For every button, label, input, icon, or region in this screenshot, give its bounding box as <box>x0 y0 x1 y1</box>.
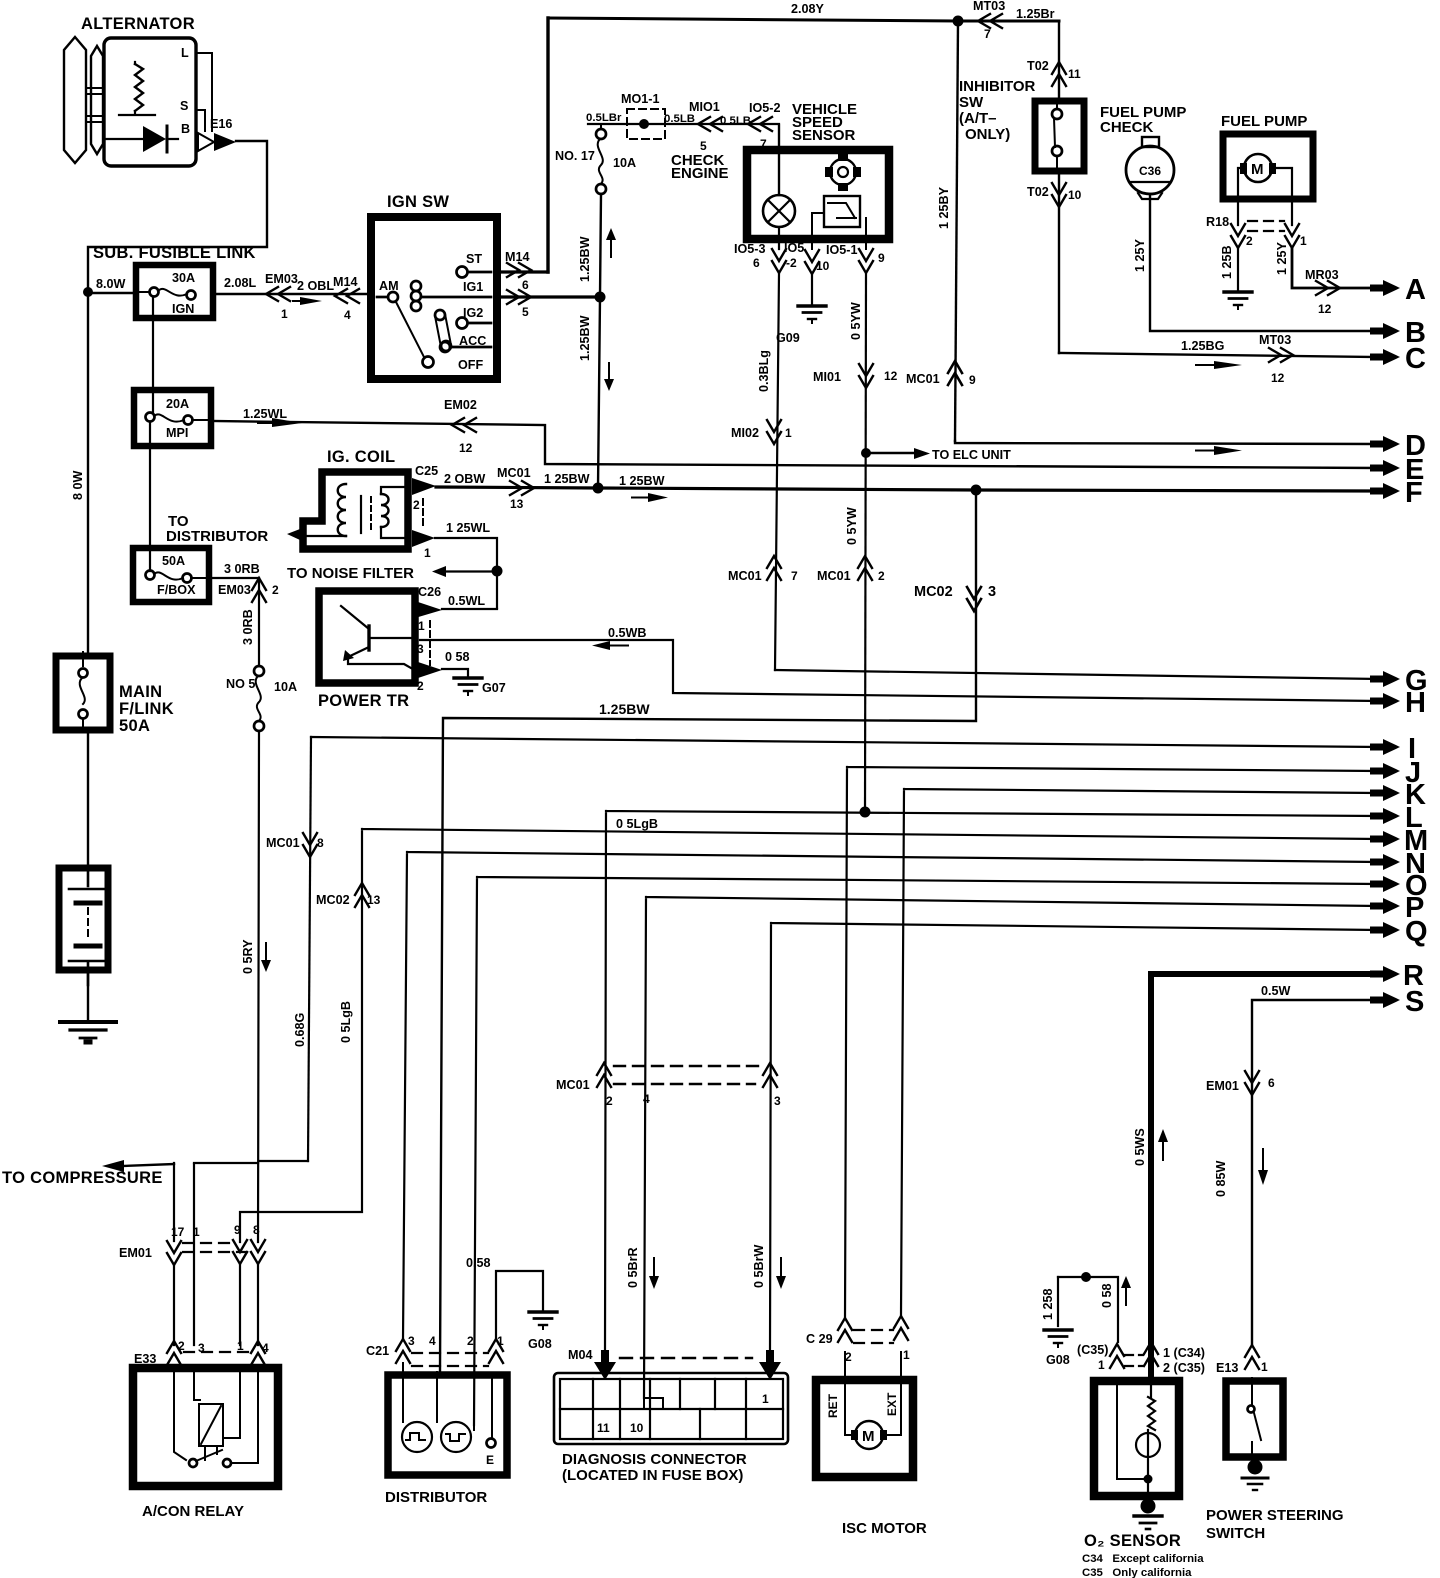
svg-text:0.58: 0.58 <box>466 1256 491 1270</box>
svg-text:MC02: MC02 <box>316 893 350 907</box>
node I terminal <box>1370 733 1416 765</box>
svg-text:0 58: 0 58 <box>445 650 470 664</box>
svg-text:1 25BY: 1 25BY <box>937 186 951 229</box>
connector MO1-1 dashed box <box>621 92 665 139</box>
svg-text:2 (C35): 2 (C35) <box>1163 1361 1205 1375</box>
svg-text:2: 2 <box>417 679 424 693</box>
svg-text:OFF: OFF <box>458 358 483 372</box>
svg-text:M14: M14 <box>333 275 358 289</box>
svg-text:A/CON RELAY: A/CON RELAY <box>142 1503 244 1520</box>
svg-text:12: 12 <box>459 441 473 455</box>
label TO DISTRIBUTOR <box>166 513 300 545</box>
svg-text:IG1: IG1 <box>463 280 483 294</box>
connector R18 <box>1206 215 1307 248</box>
svg-text:DIAGNOSIS CONNECTOR: DIAGNOSIS CONNECTOR <box>562 1451 747 1468</box>
svg-text:S: S <box>1405 986 1424 1018</box>
wire 1.25BW vertical to F junction <box>578 194 616 488</box>
svg-text:C21: C21 <box>366 1344 389 1358</box>
svg-text:2 OBW: 2 OBW <box>444 472 485 486</box>
svg-text:7: 7 <box>791 569 798 583</box>
svg-text:IO5-3: IO5-3 <box>734 242 766 256</box>
node K terminal <box>1370 779 1426 811</box>
svg-text:12: 12 <box>1271 371 1285 385</box>
svg-text:EM03: EM03 <box>218 583 251 597</box>
wire N line to distributor 3 <box>403 852 1378 1339</box>
svg-text:9: 9 <box>234 1223 241 1237</box>
svg-text:C26: C26 <box>418 585 441 599</box>
fuse 50A F/BOX <box>133 548 209 602</box>
svg-text:1.25Br: 1.25Br <box>1016 7 1055 21</box>
svg-text:13: 13 <box>367 893 381 907</box>
svg-text:2: 2 <box>413 498 420 512</box>
connector M04 into diagnosis connector <box>568 1348 781 1380</box>
svg-text:MPI: MPI <box>166 426 188 440</box>
svg-text:MT03: MT03 <box>973 0 1005 13</box>
svg-text:10A: 10A <box>613 156 636 170</box>
svg-text:4: 4 <box>429 1334 436 1348</box>
wire 0.5WB to H <box>420 626 1378 701</box>
svg-text:(C35): (C35) <box>1077 1343 1109 1357</box>
svg-text:1: 1 <box>281 307 288 321</box>
svg-text:6: 6 <box>1268 1076 1275 1090</box>
svg-text:TO ELC UNIT: TO ELC UNIT <box>932 448 1011 462</box>
svg-text:RET: RET <box>826 1393 840 1418</box>
node B terminal <box>1370 317 1426 349</box>
svg-text:2: 2 <box>272 583 279 597</box>
svg-text:1: 1 <box>903 1348 910 1362</box>
svg-text:11: 11 <box>1068 67 1081 81</box>
svg-text:0 5YW: 0 5YW <box>849 302 863 340</box>
svg-text:G08: G08 <box>528 1337 552 1351</box>
svg-text:1: 1 <box>424 546 431 560</box>
wire IG1 with connector M14-5 <box>497 290 600 319</box>
wire 2.0BW / F line with MC01-13 <box>436 466 1378 511</box>
svg-text:C35 Only california: C35 Only california <box>1082 1567 1192 1578</box>
wire 0.5RY <box>241 731 271 1242</box>
wire O line to distributor 2 <box>474 877 1378 1425</box>
svg-text:MC01: MC01 <box>497 466 531 480</box>
svg-text:20A: 20A <box>166 397 189 411</box>
node F terminal <box>1370 477 1423 509</box>
wire 1.25BY / MC01-9 to D <box>906 21 976 441</box>
ground G09 <box>776 274 826 345</box>
svg-text:IG. COIL: IG. COIL <box>327 448 395 466</box>
main fusible link 50A <box>56 652 174 735</box>
node F junction right <box>971 485 982 496</box>
svg-text:1 (C34): 1 (C34) <box>1163 1346 1205 1360</box>
svg-text:INHIBITOR: INHIBITOR <box>959 78 1036 95</box>
svg-text:POWER STEERING: POWER STEERING <box>1206 1507 1344 1524</box>
svg-text:3: 3 <box>988 584 996 600</box>
wire D line from MC01-9 <box>955 441 1378 444</box>
wire 0.5LB to vehicle speed sensor <box>586 100 781 195</box>
svg-text:2.08L: 2.08L <box>224 276 257 290</box>
node G terminal <box>1370 665 1428 697</box>
svg-text:10: 10 <box>1068 188 1082 202</box>
svg-text:FUEL PUMP: FUEL PUMP <box>1221 113 1307 130</box>
node C terminal <box>1370 343 1426 375</box>
speed sensor rotor <box>825 153 861 191</box>
connector C34/C35 pins <box>1077 1342 1205 1375</box>
connector MC01 2/4/3 dashed <box>556 1063 781 1108</box>
svg-text:0 5LB: 0 5LB <box>720 115 751 127</box>
wire 0.5WL <box>442 594 497 609</box>
label TO ELC UNIT <box>861 448 1011 462</box>
power transistor POWER TR <box>318 591 415 710</box>
svg-text:MC01: MC01 <box>556 1078 590 1092</box>
wire 1.25Y to A with connector MR03-12 <box>1275 241 1378 316</box>
svg-text:B: B <box>181 122 190 136</box>
svg-text:A: A <box>1405 274 1426 306</box>
svg-text:6: 6 <box>522 278 529 292</box>
svg-text:50A: 50A <box>162 554 185 568</box>
svg-text:O₂ SENSOR: O₂ SENSOR <box>1084 1532 1181 1550</box>
svg-text:1: 1 <box>497 1334 504 1348</box>
svg-text:4: 4 <box>643 1092 650 1106</box>
alternator G1 <box>64 15 212 166</box>
svg-text:G09: G09 <box>776 331 800 345</box>
svg-text:DISTRIBUTOR: DISTRIBUTOR <box>166 528 268 545</box>
svg-text:IO5-2: IO5-2 <box>749 101 781 115</box>
svg-text:0.3BLg: 0.3BLg <box>757 350 771 392</box>
wire 2.0BY top bus <box>548 2 1059 21</box>
svg-text:EM01: EM01 <box>1206 1079 1239 1093</box>
svg-text:1: 1 <box>237 1339 244 1353</box>
svg-text:1.25BG: 1.25BG <box>1181 339 1225 353</box>
svg-text:ISC MOTOR: ISC MOTOR <box>842 1520 927 1537</box>
svg-text:0 5BrR: 0 5BrR <box>626 1247 640 1288</box>
distributor <box>385 1363 507 1506</box>
svg-text:0 5WS: 0 5WS <box>1133 1128 1147 1166</box>
wire P line 0.5BrR <box>626 897 1378 1398</box>
wire J line from ISC RET <box>845 767 1378 1318</box>
svg-text:6: 6 <box>753 256 760 270</box>
svg-text:M: M <box>862 1428 875 1445</box>
svg-text:ALTERNATOR: ALTERNATOR <box>81 15 195 33</box>
ignition coil IG. COIL <box>301 448 408 549</box>
svg-text:DISTRIBUTOR: DISTRIBUTOR <box>385 1489 487 1506</box>
svg-text:IO5: IO5 <box>784 241 804 255</box>
connector E16 <box>198 117 236 151</box>
svg-text:C 29: C 29 <box>806 1332 833 1346</box>
svg-text:G07: G07 <box>482 681 506 695</box>
svg-text:-2: -2 <box>786 256 797 270</box>
svg-text:SUB. FUSIBLE LINK: SUB. FUSIBLE LINK <box>93 244 256 262</box>
svg-text:3 0RB: 3 0RB <box>224 562 260 576</box>
wire 1.25BW bus to distributor 4 <box>440 490 996 1372</box>
node E terminal <box>1370 454 1424 486</box>
svg-text:T02: T02 <box>1027 185 1049 199</box>
svg-text:1.25BW: 1.25BW <box>599 701 650 717</box>
svg-text:MT03: MT03 <box>1259 333 1291 347</box>
ISC motor <box>816 1352 927 1537</box>
connector E13 <box>1216 1345 1268 1375</box>
svg-text:0 5LgB: 0 5LgB <box>339 1001 353 1043</box>
node A terminal <box>1370 274 1426 306</box>
A/CON relay <box>133 1368 278 1520</box>
svg-text:1.25WL: 1.25WL <box>243 407 287 421</box>
connector C25 pins <box>412 464 438 560</box>
fuse NO.5 10A <box>226 666 297 731</box>
wire 0.3BLg <box>728 273 798 670</box>
node L terminal <box>1370 802 1423 834</box>
pin IO5 -2 10 <box>784 241 830 274</box>
svg-text:0 58: 0 58 <box>1100 1283 1114 1308</box>
svg-text:1 25Y: 1 25Y <box>1133 238 1147 272</box>
svg-text:EXT: EXT <box>885 1392 899 1416</box>
fuel pump <box>1221 113 1313 225</box>
svg-text:0.68G: 0.68G <box>293 1012 307 1047</box>
svg-text:50A: 50A <box>119 717 150 735</box>
svg-text:0.5WL: 0.5WL <box>448 594 485 608</box>
connector EM01 17/1/9/8 <box>119 1223 265 1265</box>
svg-text:5: 5 <box>700 139 707 153</box>
node M terminal <box>1370 825 1428 857</box>
svg-text:4: 4 <box>262 1341 269 1355</box>
svg-text:G08: G08 <box>1046 1353 1070 1367</box>
svg-text:MAIN: MAIN <box>119 683 162 701</box>
power steering switch <box>1206 1378 1344 1542</box>
wire R line 0.5WS <box>1133 974 1378 1378</box>
svg-text:MI02: MI02 <box>731 426 759 440</box>
svg-text:MC01: MC01 <box>906 372 940 386</box>
lamp check engine <box>763 125 795 249</box>
pin IO5-3 6 <box>734 242 786 273</box>
node 1.25BY junction <box>953 16 964 27</box>
wire L line 0.5LgB <box>605 807 1378 1350</box>
svg-text:AM: AM <box>379 279 399 293</box>
svg-text:0 5RY: 0 5RY <box>241 939 255 974</box>
svg-text:2 OBL: 2 OBL <box>297 279 334 293</box>
svg-text:(A/T–: (A/T– <box>959 110 997 127</box>
ignition switch IGN SW <box>371 193 497 379</box>
svg-text:0.5W: 0.5W <box>1261 984 1291 998</box>
svg-text:7: 7 <box>984 27 991 41</box>
wire M line <box>240 829 1378 1242</box>
diagnosis connector <box>554 1373 788 1484</box>
svg-text:IGN: IGN <box>172 302 194 316</box>
svg-text:0 5LgB: 0 5LgB <box>616 817 658 831</box>
svg-text:2: 2 <box>606 1094 613 1108</box>
svg-text:E13: E13 <box>1216 1361 1238 1375</box>
svg-text:1: 1 <box>1300 234 1307 248</box>
wire Q line 0.5BrW <box>752 923 1378 1349</box>
svg-text:1: 1 <box>1261 1360 1268 1374</box>
svg-text:1: 1 <box>193 1225 200 1239</box>
svg-text:17: 17 <box>171 1225 185 1239</box>
svg-text:POWER TR: POWER TR <box>318 692 409 710</box>
svg-text:F/BOX: F/BOX <box>157 583 196 597</box>
wire ST with connector M14-6 and 2.0BY riser <box>497 18 548 292</box>
svg-text:Q: Q <box>1405 916 1428 948</box>
svg-text:SW: SW <box>959 94 984 111</box>
svg-text:ENGINE: ENGINE <box>671 165 729 182</box>
svg-text:M04: M04 <box>568 1348 593 1362</box>
svg-text:H: H <box>1405 687 1426 719</box>
svg-text:8.0W: 8.0W <box>96 277 126 291</box>
wire 1.25BG to C with connector MT03-12 <box>1059 333 1378 385</box>
svg-text:NO 5: NO 5 <box>226 677 255 691</box>
node R terminal <box>1370 960 1424 992</box>
svg-text:1 25BW: 1 25BW <box>544 472 590 486</box>
svg-text:IO5-1: IO5-1 <box>826 243 858 257</box>
svg-text:0 5YW: 0 5YW <box>845 507 859 545</box>
svg-text:1 25BW: 1 25BW <box>619 474 665 488</box>
label TO NOISE FILTER <box>287 565 497 582</box>
connector C26 pins <box>415 585 442 693</box>
reed switch <box>812 196 866 249</box>
svg-text:C34 Except california: C34 Except california <box>1082 1553 1204 1565</box>
svg-text:IGN SW: IGN SW <box>387 193 449 211</box>
node P terminal <box>1370 892 1424 924</box>
wire 1.25WL C25-1 to noise filter node <box>435 521 497 608</box>
svg-text:TO COMPRESSURE: TO COMPRESSURE <box>2 1169 163 1187</box>
O2 sensor <box>1082 1378 1204 1578</box>
svg-text:0 5BrW: 0 5BrW <box>752 1244 766 1288</box>
svg-text:MIO1: MIO1 <box>689 100 720 114</box>
svg-text:M: M <box>1251 161 1264 178</box>
node junction IG1/1.25BW <box>595 292 606 303</box>
svg-text:2: 2 <box>1246 234 1253 248</box>
svg-text:MC02: MC02 <box>914 584 953 600</box>
svg-text:F: F <box>1405 477 1423 509</box>
svg-text:1.25BW: 1.25BW <box>578 315 592 361</box>
svg-text:10: 10 <box>630 1421 644 1435</box>
wire 0.5B to ground G07 <box>442 650 506 695</box>
svg-text:0.5LB: 0.5LB <box>664 113 695 125</box>
svg-text:2: 2 <box>467 1334 474 1348</box>
connector E33 <box>134 1339 269 1366</box>
svg-text:ST: ST <box>466 252 482 266</box>
node H terminal <box>1370 687 1426 719</box>
svg-text:1 25Y: 1 25Y <box>1275 241 1289 275</box>
wire 1.25B to ground G08 right <box>1041 1277 1072 1367</box>
wire S line 0.5W <box>1206 984 1378 1345</box>
svg-text:0.5LBr: 0.5LBr <box>586 112 622 124</box>
inhibitor switch <box>959 21 1084 353</box>
svg-text:1 258: 1 258 <box>1041 1288 1055 1320</box>
node D terminal <box>1370 430 1426 462</box>
svg-text:TO NOISE FILTER: TO NOISE FILTER <box>287 565 414 582</box>
svg-text:3: 3 <box>408 1334 415 1348</box>
svg-text:1: 1 <box>785 426 792 440</box>
wire alternator B to 8.0W node <box>88 141 267 292</box>
svg-text:E: E <box>486 1453 494 1467</box>
label TO COMPRESSURE <box>2 1160 174 1187</box>
svg-text:2: 2 <box>878 569 885 583</box>
wire 1.25WL / EM02-12 to E <box>211 398 1378 468</box>
node J terminal <box>1370 757 1421 789</box>
svg-text:10A: 10A <box>274 680 297 694</box>
svg-text:12: 12 <box>884 369 898 383</box>
svg-text:9: 9 <box>969 373 976 387</box>
svg-text:MR03: MR03 <box>1305 268 1339 282</box>
node Q terminal <box>1370 916 1428 948</box>
wire 1.25Y C36 to B <box>1133 194 1378 331</box>
fuse NO.17 10A <box>555 124 636 194</box>
svg-text:0 85W: 0 85W <box>1214 1160 1228 1197</box>
svg-text:(LOCATED IN FUSE BOX): (LOCATED IN FUSE BOX) <box>562 1467 743 1484</box>
vehicle speed sensor / check engine box <box>671 101 889 239</box>
connector C21 <box>366 1334 504 1366</box>
svg-text:1: 1 <box>1098 1358 1105 1372</box>
pin IO5-1 9 <box>826 243 885 273</box>
svg-text:SWITCH: SWITCH <box>1206 1525 1265 1542</box>
svg-text:4: 4 <box>344 308 351 322</box>
svg-text:1 25B: 1 25B <box>1220 245 1234 279</box>
connector C29 <box>806 1316 910 1364</box>
wire 2.0BL to IGN SW <box>213 272 368 322</box>
svg-text:9: 9 <box>878 251 885 265</box>
svg-text:EM01: EM01 <box>119 1246 152 1260</box>
svg-text:R18: R18 <box>1206 215 1229 229</box>
svg-text:C36: C36 <box>1139 164 1161 178</box>
svg-text:S: S <box>180 99 188 113</box>
wire 0.5B O2 sensor <box>1058 1272 1131 1342</box>
svg-text:C25: C25 <box>415 464 438 478</box>
node noise filter junction <box>492 566 503 577</box>
wire I line <box>266 737 1378 1161</box>
svg-text:3: 3 <box>198 1341 205 1355</box>
wire 0.5B distributor to ground G08 <box>466 1256 557 1351</box>
svg-text:MC01: MC01 <box>817 569 851 583</box>
svg-text:2: 2 <box>845 1350 852 1364</box>
node S terminal <box>1370 986 1424 1018</box>
svg-text:30A: 30A <box>172 271 195 285</box>
wire fusebox column <box>150 297 153 571</box>
connector MT03-7 top <box>973 0 1055 41</box>
svg-text:L: L <box>181 46 189 60</box>
svg-text:MO1-1: MO1-1 <box>621 92 660 106</box>
svg-text:MC01: MC01 <box>266 836 300 850</box>
svg-text:12: 12 <box>1318 302 1332 316</box>
svg-text:3: 3 <box>774 1094 781 1108</box>
svg-text:5: 5 <box>522 305 529 319</box>
svg-text:3: 3 <box>417 642 424 656</box>
wire A/CON relay pin feeds <box>174 1161 308 1345</box>
fuse 20A MPI <box>134 390 211 446</box>
battery <box>59 868 108 985</box>
svg-text:F/LINK: F/LINK <box>119 700 174 718</box>
svg-text:MC01: MC01 <box>728 569 762 583</box>
svg-text:T02: T02 <box>1027 59 1049 73</box>
svg-text:11: 11 <box>597 1421 610 1435</box>
svg-text:0.5WB: 0.5WB <box>608 626 647 640</box>
node O terminal <box>1370 870 1428 902</box>
wire 0.5YW <box>813 273 898 812</box>
node 8.0W junction <box>83 287 93 297</box>
svg-text:MI01: MI01 <box>813 370 841 384</box>
svg-text:EM03: EM03 <box>265 272 298 286</box>
svg-text:2.08Y: 2.08Y <box>791 2 825 16</box>
node F junction left <box>593 483 604 494</box>
svg-text:SENSOR: SENSOR <box>792 127 856 144</box>
svg-text:8: 8 <box>317 836 324 850</box>
svg-text:1: 1 <box>418 619 425 633</box>
wire K line from ISC EXT <box>901 789 1378 1316</box>
wire 1.25B to ground <box>1220 245 1252 309</box>
svg-text:1.25BW: 1.25BW <box>578 236 592 282</box>
svg-text:10: 10 <box>816 259 830 273</box>
svg-text:M14: M14 <box>505 250 530 264</box>
wire G line from 0.3BLg <box>775 670 1378 679</box>
svg-text:ONLY): ONLY) <box>965 126 1010 143</box>
svg-text:2: 2 <box>178 1339 185 1353</box>
arrow on D line <box>1196 446 1242 455</box>
svg-text:3 0RB: 3 0RB <box>241 609 255 645</box>
svg-text:1: 1 <box>762 1392 769 1406</box>
node N terminal <box>1370 848 1426 880</box>
